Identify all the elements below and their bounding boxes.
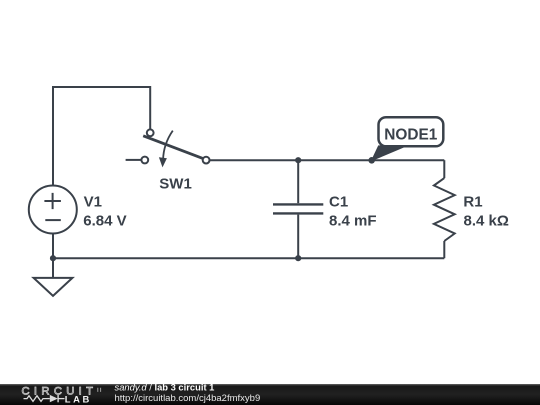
junction node at C1 top — [295, 157, 301, 163]
junction node at C1 bottom — [295, 255, 301, 261]
footer bar — [0, 384, 540, 405]
switch SW1 — [126, 129, 210, 167]
ground — [34, 258, 73, 296]
wire from V1 top to SW1 top contact — [53, 87, 150, 186]
svg-text:C1: C1 — [329, 194, 348, 211]
resistor R1 — [434, 160, 455, 258]
svg-text:V1: V1 — [84, 194, 102, 211]
CircuitLab logo — [22, 385, 101, 404]
bottom wire — [53, 257, 444, 259]
svg-text:SW1: SW1 — [159, 175, 192, 192]
svg-text:sandy.d / lab 3 circuit 1: sandy.d / lab 3 circuit 1 — [115, 384, 215, 393]
svg-text:8.4 kΩ: 8.4 kΩ — [464, 212, 509, 229]
wire from SW1 to R1 top corner — [209, 159, 444, 161]
junction node at V1 bottom — [50, 255, 56, 261]
capacitor C1 — [273, 160, 323, 258]
svg-text:NODE1: NODE1 — [384, 126, 437, 143]
svg-text:R1: R1 — [463, 194, 482, 211]
svg-text:8.4 mF: 8.4 mF — [329, 212, 377, 229]
wire V1 bottom to ground node — [52, 234, 54, 259]
svg-text:6.84 V: 6.84 V — [83, 212, 126, 229]
node NODE1 flag — [368, 117, 443, 163]
voltage source V1 — [29, 186, 77, 234]
svg-text:http://circuitlab.com/cj4ba2fm: http://circuitlab.com/cj4ba2fmfxyb9 — [115, 393, 261, 404]
svg-text:LAB: LAB — [65, 393, 92, 404]
